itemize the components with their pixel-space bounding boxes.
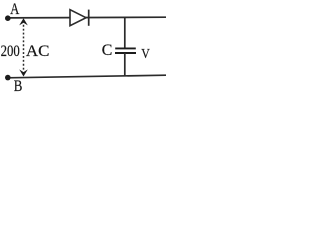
- svg-text:200: 200: [1, 43, 20, 60]
- bottom wire: [8, 75, 167, 78]
- node A: [5, 15, 11, 21]
- diode D1: [70, 10, 89, 26]
- svg-text:B: B: [14, 78, 23, 95]
- capacitor C1: [115, 17, 136, 76]
- svg-text:V: V: [141, 47, 150, 62]
- svg-text:C: C: [102, 42, 113, 59]
- node B: [5, 75, 11, 81]
- top wire: [8, 16, 167, 19]
- svg-text:AC: AC: [26, 43, 50, 60]
- svg-text:A: A: [10, 1, 19, 18]
- AC source arrow (double-headed dotted): [19, 18, 28, 76]
